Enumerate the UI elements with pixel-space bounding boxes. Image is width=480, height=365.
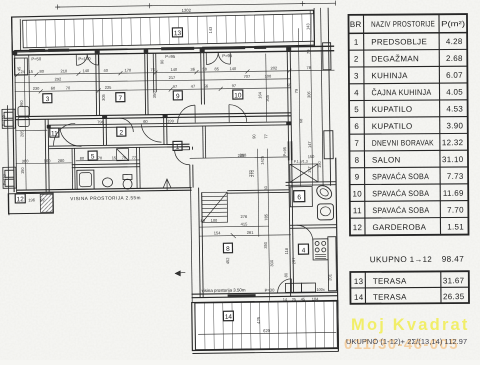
svg-text:199: 199 xyxy=(167,118,175,123)
svg-text:P=150: P=150 xyxy=(3,174,7,185)
svg-text:150: 150 xyxy=(308,154,316,159)
terrace 14 dim line xyxy=(198,332,336,334)
svg-text:KUHINJA: KUHINJA xyxy=(371,71,408,80)
room 6 toilet xyxy=(314,183,334,202)
right shaft block 1 xyxy=(323,43,331,70)
room 3 label xyxy=(43,94,52,104)
stair landing dims xyxy=(199,225,268,228)
svg-text:TERASA: TERASA xyxy=(373,293,407,302)
svg-text:201: 201 xyxy=(327,273,332,281)
north arrow xyxy=(163,179,171,188)
wall between rooms 9 and 10 xyxy=(200,53,203,105)
room 10 vertical dim line xyxy=(265,54,268,122)
svg-text:9: 9 xyxy=(176,93,180,100)
scan frame left edge xyxy=(7,105,9,215)
svg-text:11: 11 xyxy=(353,206,362,215)
table group xyxy=(348,14,469,304)
svg-text:306: 306 xyxy=(306,91,311,99)
left outer wall xyxy=(12,17,14,192)
svg-text:2: 2 xyxy=(119,130,123,137)
right outer wall upper xyxy=(328,8,330,186)
svg-text:3: 3 xyxy=(46,96,50,103)
corridor wall B xyxy=(47,122,291,125)
svg-text:3.90: 3.90 xyxy=(446,121,463,130)
svg-text:10: 10 xyxy=(352,189,362,198)
svg-text:visina prostorija 3.50m: visina prostorija 3.50m xyxy=(202,287,246,293)
svg-text:P=30: P=30 xyxy=(265,288,276,293)
svg-text:P.1,5/1,3: P.1,5/1,3 xyxy=(294,160,308,164)
svg-text:276: 276 xyxy=(240,214,248,219)
svg-text:1302: 1302 xyxy=(182,8,192,13)
door arc room 7 to corridor xyxy=(119,118,133,132)
room 5 label xyxy=(88,151,97,161)
salon top wall xyxy=(227,189,289,192)
north wall band xyxy=(14,46,334,50)
right zone dim chains xyxy=(298,28,300,186)
svg-text:4.53: 4.53 xyxy=(446,104,463,113)
svg-text:KUPATILO: KUPATILO xyxy=(372,122,413,131)
entry door arc xyxy=(175,150,190,165)
svg-text:P(m²): P(m²) xyxy=(441,19,466,28)
dimension row C xyxy=(15,88,291,92)
left arrow mark xyxy=(175,271,185,276)
svg-text:3: 3 xyxy=(354,71,359,80)
balcony door french arcs 2 xyxy=(206,52,218,64)
dims near room 4 xyxy=(282,247,333,302)
svg-text:1425: 1425 xyxy=(260,155,265,165)
hall right wall upper xyxy=(189,147,191,150)
svg-text:150: 150 xyxy=(20,167,25,175)
bay window left 1 xyxy=(2,109,15,128)
svg-text:12: 12 xyxy=(17,196,25,203)
svg-text:235: 235 xyxy=(238,153,246,158)
svg-text:415: 415 xyxy=(241,221,249,226)
svg-text:11.69: 11.69 xyxy=(443,189,464,198)
salon dim texts xyxy=(213,152,317,267)
svg-text:6: 6 xyxy=(354,122,359,131)
svg-text:350: 350 xyxy=(263,241,268,249)
extra room dims xyxy=(100,57,270,104)
summary line UKUPNO 1-12 xyxy=(370,255,465,265)
right shaft block 2 xyxy=(324,131,333,159)
duct wall right of 7-9 wall xyxy=(152,53,155,92)
svg-text:BR: BR xyxy=(350,20,362,29)
svg-text:7: 7 xyxy=(118,95,122,102)
room 4 label xyxy=(298,244,308,254)
room table: header row line xyxy=(349,32,467,35)
svg-text:292: 292 xyxy=(55,76,63,81)
svg-text:196: 196 xyxy=(28,197,36,202)
svg-text:100x: 100x xyxy=(317,288,325,292)
room table: column divider area xyxy=(439,14,441,234)
svg-text:DEGAŽMAN: DEGAŽMAN xyxy=(371,54,419,63)
svg-text:350: 350 xyxy=(152,91,157,99)
floor plan group xyxy=(1,1,341,356)
room 11 label xyxy=(50,128,59,138)
svg-text:31.10: 31.10 xyxy=(442,155,464,164)
svg-text:6.07: 6.07 xyxy=(446,71,463,80)
terrace 14 label xyxy=(223,311,233,321)
svg-text:GARDEROBA: GARDEROBA xyxy=(372,223,426,232)
staircase xyxy=(202,192,228,222)
svg-text:143: 143 xyxy=(305,23,310,31)
room 10 label xyxy=(233,90,243,100)
upper salon dim line xyxy=(190,157,289,158)
svg-text:118: 118 xyxy=(284,247,289,254)
svg-text:14: 14 xyxy=(225,314,233,321)
svg-text:261: 261 xyxy=(247,230,255,235)
room 4 sink xyxy=(285,283,301,292)
svg-text:11: 11 xyxy=(51,130,58,137)
bathtub room 5 xyxy=(77,170,94,189)
room 4 top wall xyxy=(290,224,337,227)
svg-text:P=150: P=150 xyxy=(2,115,6,126)
svg-text:4.05: 4.05 xyxy=(446,88,463,97)
svg-text:140: 140 xyxy=(82,68,90,73)
room 4 counter xyxy=(328,237,337,291)
svg-text:305: 305 xyxy=(101,93,106,101)
room 6 label xyxy=(294,191,305,202)
terrace table: column dividers xyxy=(364,272,366,304)
toilet room 5 xyxy=(123,175,132,180)
svg-text:4: 4 xyxy=(302,247,306,254)
garderoba block 12 xyxy=(8,193,53,214)
svg-text:170: 170 xyxy=(124,68,132,73)
svg-text:PREDSOBLJE: PREDSOBLJE xyxy=(371,37,427,46)
svg-text:KUPATILO: KUPATILO xyxy=(372,105,413,114)
salon bottom wall xyxy=(192,292,338,294)
room 4 stove xyxy=(313,239,328,260)
svg-text:143: 143 xyxy=(208,26,213,34)
room 6 walls xyxy=(286,181,336,184)
svg-text:13: 13 xyxy=(354,277,364,286)
room 2 door arc xyxy=(53,123,75,145)
terrace 13 band xyxy=(12,10,315,52)
svg-text:425: 425 xyxy=(256,316,261,324)
dimension row B xyxy=(15,79,291,83)
svg-text:140: 140 xyxy=(170,67,178,72)
svg-text:300: 300 xyxy=(269,259,274,267)
svg-text:7.73: 7.73 xyxy=(447,172,464,181)
left vertical dim chain xyxy=(24,58,26,190)
room 12 label xyxy=(15,194,25,204)
svg-text:SALON: SALON xyxy=(372,155,401,164)
corridor dim row 2 xyxy=(16,162,72,165)
svg-text:147: 147 xyxy=(307,141,312,149)
balcony door french arcs 1 xyxy=(76,54,87,65)
svg-text:154: 154 xyxy=(214,230,222,235)
salon room 8 label xyxy=(223,243,232,253)
svg-text:26.35: 26.35 xyxy=(443,292,465,301)
svg-text:VISINA PROSTORIJA 2.55m: VISINA PROSTORIJA 2.55m xyxy=(70,195,141,201)
svg-text:5: 5 xyxy=(354,105,359,114)
svg-text:P=95: P=95 xyxy=(282,146,287,156)
svg-text:260: 260 xyxy=(19,100,24,108)
svg-text:P=95: P=95 xyxy=(165,54,176,59)
svg-text:8: 8 xyxy=(355,156,360,165)
svg-text:6: 6 xyxy=(297,194,301,201)
room 2 label xyxy=(117,127,126,137)
svg-text:100: 100 xyxy=(211,218,219,223)
svg-text:P=100: P=100 xyxy=(78,56,91,61)
svg-text:P=95: P=95 xyxy=(222,53,233,58)
terrace 13 label xyxy=(172,28,182,37)
svg-text:225: 225 xyxy=(105,85,113,90)
room 3 counter fixtures xyxy=(18,106,29,116)
hall 1 north wall xyxy=(167,143,189,145)
washing machine in bath xyxy=(117,149,129,161)
svg-text:230: 230 xyxy=(33,86,41,91)
svg-text:202: 202 xyxy=(270,65,278,70)
room table: texts xyxy=(350,19,467,232)
svg-text:160: 160 xyxy=(44,158,52,163)
svg-text:100: 100 xyxy=(265,74,273,79)
svg-text:7: 7 xyxy=(354,139,359,148)
svg-text:360: 360 xyxy=(22,158,30,163)
shaft with X above room 6 xyxy=(290,164,318,182)
svg-text:257: 257 xyxy=(291,257,296,265)
svg-text:5: 5 xyxy=(91,153,95,160)
svg-text:620: 620 xyxy=(263,328,271,333)
washbasin room 5 xyxy=(102,178,112,187)
bay window left 2 xyxy=(3,167,16,188)
door arc room 10 xyxy=(229,104,247,122)
bath left wall xyxy=(71,148,74,189)
svg-text:217: 217 xyxy=(169,75,177,80)
svg-text:4.28: 4.28 xyxy=(446,37,463,46)
left wall niche xyxy=(14,58,27,75)
closet wall below room 10 xyxy=(202,126,204,158)
watermark group xyxy=(344,316,470,353)
room table: row lines xyxy=(349,48,467,51)
svg-text:140: 140 xyxy=(229,66,237,71)
top dimension line xyxy=(58,3,336,7)
hall right wall lower xyxy=(189,165,191,188)
terrace table: texts xyxy=(354,276,465,302)
wall junction blocks xyxy=(12,47,292,129)
room table: outer frame xyxy=(348,14,468,235)
dimension row A xyxy=(15,70,335,74)
wall left of corridor x46 xyxy=(45,119,46,191)
svg-text:98.47: 98.47 xyxy=(442,255,465,264)
svg-text:UKUPNO: UKUPNO xyxy=(370,255,407,264)
svg-text:SPAVAĆA SOBA: SPAVAĆA SOBA xyxy=(372,206,429,215)
svg-text:305: 305 xyxy=(265,94,270,102)
svg-text:10: 10 xyxy=(234,92,242,99)
room 1 label xyxy=(173,141,182,151)
svg-text:7.70: 7.70 xyxy=(447,206,464,215)
room table: column divider BR xyxy=(363,15,365,235)
room 7 label xyxy=(116,93,125,103)
room 9 label xyxy=(173,91,182,101)
wall between 2 and hall 1 xyxy=(163,118,165,145)
salon left wall xyxy=(199,188,201,298)
kitchen closet wall xyxy=(28,55,31,116)
svg-text:452: 452 xyxy=(225,257,230,265)
svg-text:785: 785 xyxy=(263,213,268,221)
svg-text:210: 210 xyxy=(60,68,68,73)
svg-text:UKUPNO (1-12)+ 2Σ/(13,14) 112.: UKUPNO (1-12)+ 2Σ/(13,14) 112.97 xyxy=(346,337,467,346)
salon door arc xyxy=(277,279,291,293)
projection line left of salon xyxy=(191,188,193,303)
svg-text:P=50: P=50 xyxy=(31,56,42,61)
svg-text:280: 280 xyxy=(58,158,66,163)
svg-text:4: 4 xyxy=(354,88,359,97)
window in right wall xyxy=(288,141,290,160)
left part bottom wall xyxy=(16,188,191,190)
svg-text:707: 707 xyxy=(244,74,252,79)
door arc room 11 xyxy=(60,127,82,146)
wall between 11 and 2 xyxy=(102,118,104,145)
window sills north wall xyxy=(48,49,69,52)
svg-text:DNEVNI BORAVAK: DNEVNI BORAVAK xyxy=(372,138,434,147)
svg-text:164: 164 xyxy=(257,91,262,99)
wall between rooms 3 and 7 xyxy=(95,54,98,115)
room 6 shower tray xyxy=(290,187,312,207)
svg-text:2: 2 xyxy=(354,55,359,64)
room 6 basin xyxy=(317,204,333,220)
door arc room 9 xyxy=(177,105,195,123)
terrace 14 band xyxy=(192,300,339,350)
svg-text:31.67: 31.67 xyxy=(443,276,465,285)
bath corridor wall xyxy=(72,163,140,166)
svg-text:NAZIV PROSTORIJE: NAZIV PROSTORIJE xyxy=(371,19,435,28)
salon dim line xyxy=(199,235,290,236)
right outer wall xyxy=(336,158,339,352)
room 4 door arc xyxy=(297,225,313,241)
svg-text:SPAVAĆA SOBA: SPAVAĆA SOBA xyxy=(372,189,429,198)
terrace table: outer frame xyxy=(350,271,469,304)
rooms 11 and 2 south wall xyxy=(49,144,190,146)
center vertical dim chain xyxy=(268,149,270,301)
door arc room 2 xyxy=(141,124,161,142)
svg-text:8: 8 xyxy=(226,246,230,253)
svg-text:1→12: 1→12 xyxy=(410,255,432,264)
svg-text:270: 270 xyxy=(250,169,255,177)
svg-text:13: 13 xyxy=(174,30,182,37)
svg-text:12: 12 xyxy=(353,223,363,232)
corridor north wall xyxy=(15,113,291,117)
svg-text:12.32: 12.32 xyxy=(442,138,464,147)
svg-text:ČAJNA KUHINJA: ČAJNA KUHINJA xyxy=(371,88,431,97)
wall between room 10 and right zone xyxy=(287,51,289,188)
svg-text:SPAVAĆA SOBA: SPAVAĆA SOBA xyxy=(372,172,429,181)
svg-text:1.51: 1.51 xyxy=(447,222,464,231)
wall between rooms 7 and 9 xyxy=(144,53,147,114)
corridor dim row xyxy=(15,129,47,131)
svg-text:1: 1 xyxy=(354,38,359,47)
tick marks on dim rows xyxy=(15,69,291,94)
svg-text:9: 9 xyxy=(355,173,360,182)
terrace table: row line xyxy=(350,286,468,289)
svg-text:14: 14 xyxy=(354,293,364,302)
svg-text:2.68: 2.68 xyxy=(446,54,463,63)
svg-text:Moj Kvadrat: Moj Kvadrat xyxy=(351,316,470,334)
svg-text:TERASA: TERASA xyxy=(373,277,407,286)
wall between salon and room 4 zone xyxy=(289,182,291,296)
